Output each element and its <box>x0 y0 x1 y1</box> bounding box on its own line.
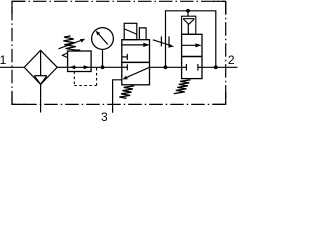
valve V2 bottom position blocked left <box>182 66 187 68</box>
valve V1 top position path (1-2 open) <box>122 44 149 46</box>
wire regulator to valve <box>91 66 122 68</box>
wire port 2 <box>202 66 238 68</box>
valve V1 return spring <box>119 86 134 99</box>
valve V1 body (3/2 solenoid valve) <box>122 40 150 85</box>
svg-text:1: 1 <box>0 53 7 67</box>
valve V1 bottom position path 2-3 <box>127 67 150 77</box>
check valve seat <box>183 18 195 20</box>
check valve stub bottom <box>187 24 189 34</box>
bypass loop wire <box>166 11 216 68</box>
filter F1 (with water separator) <box>24 50 57 84</box>
svg-text:3: 3 <box>101 110 108 122</box>
gauge G1 <box>92 28 114 50</box>
drain line <box>40 84 42 112</box>
manual override <box>139 28 146 40</box>
valve V2 return spring <box>174 80 191 94</box>
junction gauge node <box>101 65 105 69</box>
gauge needle <box>99 34 108 45</box>
check valve stub top <box>187 11 189 17</box>
valve V2 top position path (open) <box>182 44 201 46</box>
check valve CV1 box <box>182 16 196 34</box>
valve V1 top position blocked port <box>122 56 128 58</box>
regulator pilot line (dashed) <box>74 68 96 86</box>
regulator R1 body <box>68 51 92 72</box>
enclosure frame (dash-dot) <box>12 1 226 104</box>
junction output node <box>214 65 218 69</box>
regulator relief triangle <box>62 53 67 58</box>
regulator spring <box>63 36 77 51</box>
check valve poppet V <box>183 19 194 24</box>
throttle adjustment arrow <box>153 40 171 46</box>
junction check valve node <box>186 9 190 13</box>
gauge stem <box>102 49 104 67</box>
wire port 3 <box>113 80 122 113</box>
regulator adjustment arrow <box>59 40 83 49</box>
svg-text:2: 2 <box>228 53 235 67</box>
valve V2 bottom position blocked right <box>198 66 202 68</box>
junction bypass node <box>164 65 168 69</box>
solenoid coil <box>124 23 137 39</box>
throttle FC1 restriction bars <box>160 36 162 46</box>
wire port 1 <box>0 66 24 68</box>
wire valve V1 to valve V2 <box>150 66 182 68</box>
regulator flow path <box>68 66 92 68</box>
valve V1 bottom position blocked port 1 <box>122 66 128 68</box>
wire filter to regulator <box>57 66 67 68</box>
valve V2 body (2/2 pilot valve) <box>182 34 202 78</box>
regulator spring anchor <box>75 49 80 51</box>
frame corner ticks <box>12 1 226 104</box>
